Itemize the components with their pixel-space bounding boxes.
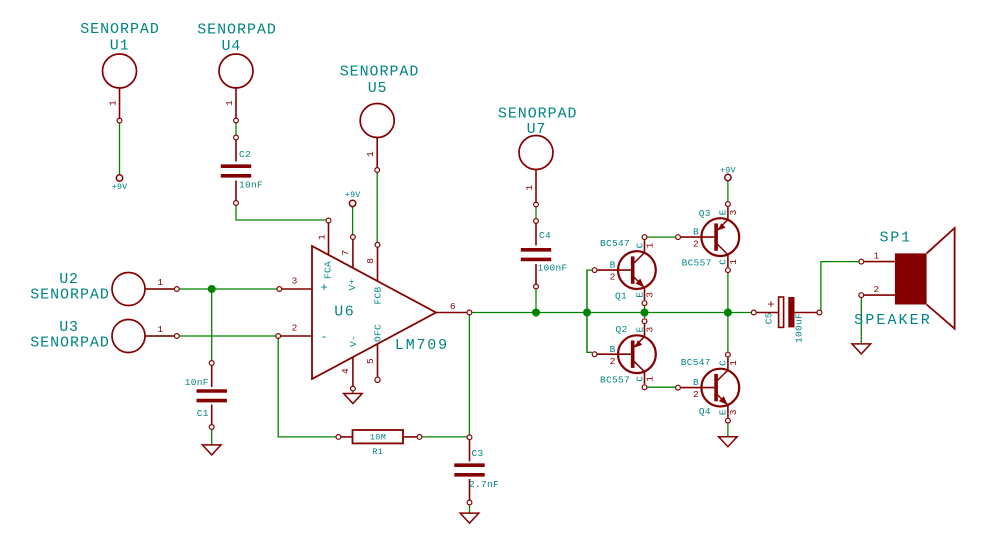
wire bbox=[145, 335, 276, 337]
svg-text:Q3: Q3 bbox=[699, 208, 711, 219]
svg-text:8: 8 bbox=[365, 258, 376, 264]
resistor R1 bbox=[336, 430, 422, 457]
svg-text:SENORPAD: SENORPAD bbox=[340, 64, 420, 81]
svg-text:SPEAKER: SPEAKER bbox=[854, 312, 932, 329]
wire bbox=[211, 430, 213, 445]
wire bbox=[236, 203, 327, 220]
wire bbox=[472, 312, 752, 314]
op-amp U6 (LM709) bbox=[276, 218, 472, 391]
svg-text:2: 2 bbox=[693, 389, 699, 400]
svg-text:E: E bbox=[634, 326, 645, 332]
svg-text:C2: C2 bbox=[239, 149, 251, 160]
svg-text:1: 1 bbox=[157, 324, 163, 335]
svg-text:2.7nF: 2.7nF bbox=[469, 479, 499, 490]
svg-text:1: 1 bbox=[645, 376, 656, 382]
wire bbox=[821, 262, 859, 311]
wire bbox=[145, 288, 277, 290]
power +9V (Q3) bbox=[720, 166, 736, 181]
svg-text:B: B bbox=[693, 227, 699, 238]
svg-text:BC547: BC547 bbox=[600, 238, 630, 249]
svg-text:Q4: Q4 bbox=[699, 406, 711, 417]
svg-text:U4: U4 bbox=[221, 38, 241, 55]
svg-text:2: 2 bbox=[292, 323, 298, 334]
svg-text:U2: U2 bbox=[59, 271, 79, 288]
svg-text:1: 1 bbox=[365, 151, 376, 157]
svg-text:+9V: +9V bbox=[720, 166, 736, 176]
svg-text:U6: U6 bbox=[334, 304, 355, 321]
svg-text:5: 5 bbox=[365, 358, 376, 364]
svg-text:BC557: BC557 bbox=[600, 375, 630, 386]
wire bbox=[727, 181, 729, 203]
svg-text:+: + bbox=[767, 298, 774, 312]
svg-text:+: + bbox=[321, 281, 328, 295]
svg-text:3: 3 bbox=[645, 292, 656, 298]
wire bbox=[352, 389, 354, 394]
ground (C1) bbox=[202, 445, 221, 455]
svg-text:1: 1 bbox=[224, 100, 235, 106]
svg-text:BC547: BC547 bbox=[681, 357, 711, 368]
svg-text:FCB: FCB bbox=[372, 286, 383, 304]
svg-text:C: C bbox=[634, 242, 645, 248]
transistor Q1 (BC547 NPN) bbox=[592, 235, 656, 306]
svg-text:2: 2 bbox=[873, 284, 879, 295]
svg-text:R1: R1 bbox=[372, 447, 383, 457]
svg-text:1: 1 bbox=[157, 277, 163, 288]
svg-text:10nF: 10nF bbox=[239, 180, 263, 191]
svg-text:SENORPAD: SENORPAD bbox=[30, 287, 110, 304]
svg-text:4: 4 bbox=[340, 368, 351, 374]
wire bbox=[469, 505, 471, 513]
wire bbox=[376, 172, 378, 244]
svg-text:-: - bbox=[321, 330, 328, 344]
svg-text:B: B bbox=[610, 344, 616, 355]
ground (U6 pin4) bbox=[344, 394, 363, 404]
svg-text:1: 1 bbox=[645, 242, 656, 248]
ground (C3) bbox=[460, 513, 479, 523]
svg-text:1: 1 bbox=[316, 234, 327, 240]
sensor pad U7 bbox=[498, 106, 578, 207]
svg-text:1: 1 bbox=[524, 184, 535, 190]
transistor Q4 (BC547 NPN) bbox=[676, 352, 740, 423]
wire bbox=[644, 306, 646, 319]
svg-text:FCA: FCA bbox=[323, 261, 334, 279]
svg-text:C5: C5 bbox=[764, 312, 775, 324]
svg-text:+9V: +9V bbox=[112, 182, 128, 192]
capacitor C1 bbox=[185, 361, 227, 430]
svg-text:2: 2 bbox=[610, 356, 616, 367]
svg-text:BC557: BC557 bbox=[682, 257, 712, 268]
svg-text:E: E bbox=[718, 409, 729, 415]
svg-text:U1: U1 bbox=[110, 38, 130, 55]
svg-text:OFC: OFC bbox=[373, 324, 384, 342]
svg-text:B: B bbox=[610, 260, 616, 271]
svg-text:3: 3 bbox=[728, 409, 739, 415]
wire bbox=[468, 314, 470, 435]
transistor Q2 (BC557 PNP) bbox=[592, 319, 656, 390]
power +9V (U1) bbox=[112, 175, 128, 192]
svg-text:SP1: SP1 bbox=[879, 230, 911, 247]
wire bbox=[586, 270, 588, 352]
svg-text:SENORPAD: SENORPAD bbox=[30, 335, 110, 352]
wire bbox=[422, 436, 470, 438]
wire bbox=[119, 121, 121, 175]
svg-text:2: 2 bbox=[610, 272, 616, 283]
svg-text:3: 3 bbox=[645, 326, 656, 332]
svg-text:Q1: Q1 bbox=[615, 291, 627, 302]
svg-text:100uF: 100uF bbox=[794, 313, 805, 343]
power +9V (U6 pin7) bbox=[345, 190, 361, 207]
svg-text:C: C bbox=[718, 360, 729, 366]
svg-text:E: E bbox=[718, 209, 729, 215]
svg-text:U7: U7 bbox=[527, 121, 547, 138]
svg-text:U5: U5 bbox=[368, 80, 388, 97]
wire bbox=[727, 423, 729, 437]
svg-text:10M: 10M bbox=[370, 433, 386, 443]
svg-text:1: 1 bbox=[728, 259, 739, 265]
svg-text:B: B bbox=[693, 377, 699, 388]
wire bbox=[647, 386, 676, 388]
ground (Q4) bbox=[719, 437, 738, 447]
svg-text:3: 3 bbox=[728, 209, 739, 215]
svg-text:3: 3 bbox=[292, 276, 298, 287]
wire bbox=[647, 236, 675, 238]
sensor pad U3 bbox=[30, 319, 179, 352]
capacitor C3 bbox=[454, 435, 499, 505]
capacitor C4 bbox=[521, 219, 568, 289]
wire bbox=[727, 273, 729, 353]
svg-text:100nF: 100nF bbox=[537, 262, 567, 273]
wire bbox=[278, 338, 336, 437]
svg-text:C: C bbox=[634, 376, 645, 382]
svg-text:C3: C3 bbox=[471, 448, 483, 459]
svg-text:7: 7 bbox=[340, 250, 351, 256]
junction bbox=[724, 309, 732, 317]
svg-text:C1: C1 bbox=[197, 408, 209, 419]
wire bbox=[235, 121, 237, 135]
sensor pad U4 bbox=[197, 22, 277, 123]
svg-text:1: 1 bbox=[728, 360, 739, 366]
capacitor C2 bbox=[221, 135, 263, 205]
junction bbox=[208, 285, 216, 293]
sensor pad U1 bbox=[80, 21, 160, 123]
svg-text:V-: V- bbox=[348, 335, 359, 347]
junction bbox=[532, 309, 540, 317]
svg-text:C: C bbox=[718, 259, 729, 265]
junction bbox=[641, 309, 649, 317]
svg-text:10nF: 10nF bbox=[185, 377, 209, 388]
svg-text:U3: U3 bbox=[59, 319, 79, 336]
junction bbox=[583, 309, 591, 317]
wire bbox=[535, 288, 537, 313]
sensor pad U2 bbox=[30, 271, 179, 305]
sensor pad U5 bbox=[340, 64, 420, 173]
svg-text:2: 2 bbox=[693, 239, 699, 250]
svg-text:Q2: Q2 bbox=[615, 324, 627, 335]
wire bbox=[587, 270, 592, 352]
svg-text:1: 1 bbox=[873, 250, 879, 261]
svg-text:1: 1 bbox=[108, 100, 119, 106]
svg-text:E: E bbox=[634, 292, 645, 298]
svg-text:C4: C4 bbox=[539, 230, 551, 241]
transistor Q3 (BC557 PNP) bbox=[676, 202, 740, 273]
svg-text:SENORPAD: SENORPAD bbox=[197, 22, 277, 39]
wire bbox=[211, 289, 213, 361]
svg-text:6: 6 bbox=[450, 301, 456, 312]
ground (SP1) bbox=[852, 344, 871, 354]
capacitor C5 (100uF polarized) bbox=[751, 297, 821, 343]
wire bbox=[535, 206, 537, 219]
svg-text:LM709: LM709 bbox=[395, 337, 449, 354]
speaker SP1 bbox=[854, 228, 954, 329]
wire bbox=[860, 298, 862, 344]
svg-text:SENORPAD: SENORPAD bbox=[80, 21, 160, 38]
svg-text:+9V: +9V bbox=[345, 190, 361, 200]
wire bbox=[352, 206, 354, 236]
svg-text:V+: V+ bbox=[347, 278, 358, 290]
